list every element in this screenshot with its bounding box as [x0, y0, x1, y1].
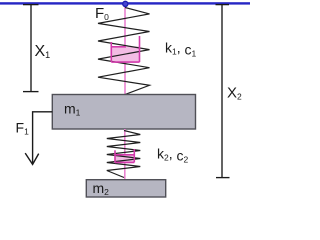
dimension X1: [23, 5, 39, 92]
damper C1 fill (cylinder body): [111, 47, 139, 63]
mass m1: [52, 95, 195, 130]
spring K2: [107, 131, 141, 178]
spring K1: [98, 8, 150, 95]
damper C1 case strokes: [111, 36, 139, 62]
dimension X2: [216, 5, 230, 178]
svg-text:X2: X2: [227, 85, 242, 102]
svg-text:F1: F1: [16, 120, 30, 137]
rod 2 (piston rod through spring 2): [124, 129, 126, 180]
svg-text:F0: F0: [95, 5, 109, 22]
force F1 arrow: [25, 112, 52, 165]
svg-text:X1: X1: [35, 43, 51, 60]
mass m2: [86, 180, 165, 197]
ceiling bar: [0, 2, 250, 4]
svg-text:k2, c2: k2, c2: [157, 146, 189, 165]
damper C2 fill: [115, 155, 134, 163]
svg-text:k1, c1: k1, c1: [165, 40, 197, 59]
pivot circle on ceiling: [123, 1, 128, 6]
rod 1 (piston rod through spring 1): [124, 6, 126, 95]
damper C2 case strokes: [115, 149, 134, 162]
